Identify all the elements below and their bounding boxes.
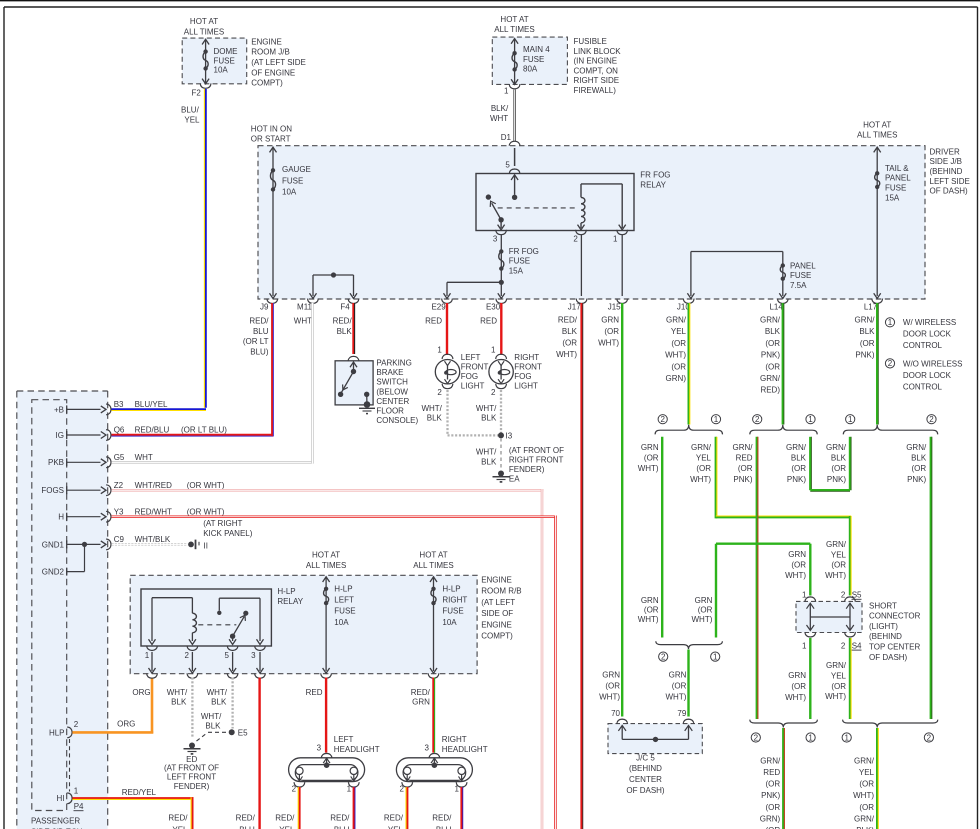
label WHT/RED OR WHT (Z2 wire) (135, 481, 225, 490)
svg-text:S4: S4 (852, 642, 862, 651)
svg-text:(OR: (OR (562, 339, 577, 348)
svg-text:BLK: BLK (481, 414, 497, 423)
wire WHT G5 to M11 (112, 303, 314, 464)
merge brace to J/C5 pin 79 (656, 641, 723, 649)
split brace J10 (655, 425, 722, 435)
svg-text:FUSE: FUSE (509, 257, 530, 266)
svg-text:FRONT: FRONT (514, 363, 542, 372)
svg-text:S5: S5 (852, 591, 862, 600)
J/C5 pin 70 (611, 709, 628, 739)
svg-text:GRN: GRN (788, 550, 806, 559)
option 2 marker (J10 left branch) (658, 415, 667, 424)
svg-text:FUSIBLE: FUSIBLE (574, 37, 607, 46)
svg-text:(AT FRONT OF: (AT FRONT OF (164, 763, 219, 772)
svg-text:F2: F2 (191, 89, 201, 98)
svg-text:BLK: BLK (562, 327, 578, 336)
svg-text:BLU): BLU) (250, 347, 269, 356)
svg-text:ALL TIMES: ALL TIMES (857, 131, 897, 140)
svg-text:OF DASH): OF DASH) (930, 187, 969, 196)
wire GRN S4 pin1 to merge (809, 638, 811, 719)
svg-text:ALL TIMES: ALL TIMES (184, 27, 224, 36)
svg-text:COMPT): COMPT) (251, 79, 283, 88)
H-LP relay pin 5 (224, 646, 238, 679)
svg-text:J9: J9 (260, 303, 269, 312)
svg-text:WHT: WHT (490, 114, 508, 123)
svg-text:J15: J15 (608, 303, 621, 312)
label HOT AT ALL TIMES (H-LP right fuse) (413, 551, 453, 571)
svg-text:IG: IG (56, 431, 64, 440)
S4 pin 2 (841, 632, 856, 650)
connector E30 (486, 299, 507, 312)
wire GRN/YEL merged to bottom (876, 728, 878, 829)
svg-text:RIGHT FRONT: RIGHT FRONT (509, 456, 564, 465)
svg-text:WHT): WHT) (853, 791, 874, 800)
wire RED/BLK F4 to parking brake switch (352, 303, 354, 354)
svg-text:CONNECTOR: CONNECTOR (869, 612, 921, 621)
svg-text:Q6: Q6 (114, 426, 125, 435)
svg-text:(OR: (OR (605, 682, 620, 691)
ground EA (493, 471, 521, 484)
option 1 marker (merge B right) (806, 733, 815, 742)
svg-text:1: 1 (808, 415, 813, 424)
wire GRN/BLK branch (L14-1) joined to L17-1 (810, 437, 851, 492)
wire RED/BLU left headlight pin1 to bottom (353, 787, 355, 829)
svg-text:2: 2 (755, 415, 760, 424)
label H-LP RELAY (277, 587, 303, 606)
svg-text:2: 2 (573, 234, 578, 243)
label S5 (852, 591, 863, 600)
svg-text:F4: F4 (340, 303, 350, 312)
svg-text:BLK: BLK (481, 457, 497, 466)
svg-text:PKB: PKB (48, 458, 64, 467)
svg-text:RELAY: RELAY (640, 181, 666, 190)
svg-text:WHT/: WHT/ (476, 448, 497, 457)
lamp LEFT HEADLIGHT (289, 744, 365, 794)
svg-text:1: 1 (714, 415, 719, 424)
svg-text:COMPT): COMPT) (481, 632, 513, 641)
svg-text:ORG: ORG (132, 688, 150, 697)
svg-text:(BELOW: (BELOW (376, 387, 408, 396)
merge brace to GRN/YEL wire (843, 720, 938, 728)
svg-text:ORG: ORG (117, 719, 135, 728)
svg-text:P4: P4 (74, 802, 84, 811)
svg-text:MAIN 4: MAIN 4 (523, 45, 550, 54)
connector J9 (260, 299, 278, 312)
wire relay pin2 to J17 inside J/B (580, 235, 582, 296)
svg-text:5: 5 (505, 161, 510, 170)
svg-text:(OR: (OR (912, 464, 927, 473)
svg-text:BLU: BLU (239, 825, 255, 829)
option 1 marker (L17 left branch) (846, 415, 855, 424)
svg-text:1: 1 (347, 784, 352, 793)
wire GRN/BLK L14 to split (782, 303, 784, 425)
ECU pin PKB (48, 453, 125, 468)
svg-text:GRN/: GRN/ (826, 540, 847, 549)
svg-text:RELAY: RELAY (277, 597, 303, 606)
svg-text:G5: G5 (114, 453, 125, 462)
svg-text:2: 2 (661, 652, 666, 661)
svg-text:YEL: YEL (279, 825, 295, 829)
label RED/BLU OR LT BLU (Q6 wire) (135, 426, 228, 435)
wire ORG HLP to H-LP relay pin1 (72, 678, 153, 734)
ECU pin FOGS (41, 481, 123, 496)
svg-text:CONTROL: CONTROL (903, 341, 943, 350)
svg-text:(OR LT: (OR LT (243, 337, 269, 346)
svg-text:BLK: BLK (337, 327, 353, 336)
junction block PASSENGER SIDE J/B ECU (outer dashed box) (17, 391, 108, 829)
svg-text:H-LP: H-LP (442, 584, 460, 593)
svg-text:WHT/: WHT/ (167, 688, 188, 697)
J/C5 pin 79 (677, 709, 694, 739)
svg-text:PANEL: PANEL (790, 261, 816, 270)
svg-text:GRN/: GRN/ (854, 814, 875, 823)
svg-text:BLK: BLK (171, 697, 187, 706)
svg-text:FUSE: FUSE (282, 176, 303, 185)
svg-text:GRN/: GRN/ (760, 316, 781, 325)
svg-text:WHT): WHT) (825, 571, 846, 580)
svg-text:(OR: (OR (831, 682, 846, 691)
wire WHT/BLK I3 to EA ground (500, 438, 502, 470)
svg-text:1: 1 (145, 651, 150, 660)
label HOT AT ALL TIMES (main 4 fuse) (494, 15, 534, 34)
svg-text:1: 1 (808, 733, 813, 742)
label RED/BLU (bottom) (330, 814, 350, 829)
svg-text:2: 2 (491, 388, 496, 397)
ECU pin GND2 (42, 544, 85, 576)
svg-text:(OR: (OR (698, 606, 713, 615)
svg-text:1: 1 (802, 642, 807, 651)
svg-text:LEFT SIDE: LEFT SIDE (930, 177, 970, 186)
svg-text:WHT): WHT) (665, 351, 686, 360)
svg-text:LEFT: LEFT (334, 596, 354, 605)
svg-text:GRN): GRN) (760, 814, 781, 823)
H-LP relay pin 3 (251, 646, 265, 679)
svg-text:BLK/: BLK/ (491, 104, 509, 113)
svg-text:1: 1 (504, 86, 509, 95)
wire RED/BLK J17 to bottom (580, 303, 582, 829)
svg-text:(OR: (OR (644, 606, 659, 615)
lamp RIGHT HEADLIGHT (396, 744, 472, 794)
wire RED/YEL right headlight pin2 to bottom (406, 787, 408, 829)
svg-text:2: 2 (292, 784, 297, 793)
svg-text:FIREWALL): FIREWALL) (574, 86, 617, 95)
svg-text:WHT/BLK: WHT/BLK (135, 535, 171, 544)
label LEFT HEADLIGHT (334, 735, 380, 754)
svg-text:ENGINE: ENGINE (251, 37, 282, 46)
svg-text:ALL TIMES: ALL TIMES (306, 561, 346, 570)
svg-text:HOT AT: HOT AT (419, 551, 447, 560)
label WHT/BLK (pin5 wire) (207, 688, 228, 707)
svg-text:(OR: (OR (766, 803, 781, 812)
svg-text:2: 2 (841, 591, 846, 600)
svg-text:10A: 10A (214, 66, 229, 75)
svg-text:I3: I3 (506, 431, 513, 440)
split brace L14 (750, 425, 817, 435)
wire BLU/YEL from F2 down to B3 (112, 89, 207, 411)
svg-text:(OR: (OR (859, 780, 874, 789)
svg-text:II: II (204, 541, 208, 550)
internal link M11-F4 in J/B (310, 272, 358, 298)
label WHT/BLK (I3-EA) (476, 448, 497, 467)
svg-text:(BEHIND: (BEHIND (629, 764, 662, 773)
svg-text:FRONT: FRONT (461, 363, 489, 372)
svg-text:CONSOLE): CONSOLE) (376, 416, 418, 425)
svg-text:BLK: BLK (911, 454, 927, 463)
svg-text:GRN: GRN (641, 596, 659, 605)
svg-text:RED: RED (763, 768, 780, 777)
wire GRN/RED branch (L14-2) to merge (756, 437, 758, 719)
H-LP relay pin 2 (184, 646, 197, 679)
wire WHT/BLK relay pin5 to E5 (231, 678, 233, 729)
svg-text:(OR: (OR (860, 339, 875, 348)
svg-text:RED: RED (306, 688, 323, 697)
svg-text:1: 1 (844, 733, 849, 742)
svg-text:2: 2 (888, 359, 893, 368)
svg-text:WHT/: WHT/ (421, 404, 442, 413)
svg-text:RED/: RED/ (275, 814, 295, 823)
S4 pin 1 (802, 632, 816, 650)
svg-text:YEL: YEL (388, 825, 404, 829)
wire RED E30 to right fog light (500, 303, 502, 355)
svg-text:(BEHIND: (BEHIND (930, 167, 963, 176)
svg-text:(AT FRONT OF: (AT FRONT OF (509, 446, 564, 455)
svg-text:2: 2 (437, 388, 442, 397)
relay switch contact (fixed) (486, 194, 491, 199)
svg-text:2: 2 (74, 720, 79, 729)
junction I3 (498, 431, 513, 440)
svg-text:M11: M11 (297, 303, 313, 312)
svg-text:WHT: WHT (294, 317, 312, 326)
svg-text:YEL: YEL (172, 825, 188, 829)
svg-text:PNK): PNK) (827, 475, 846, 484)
wire relay pin1 to J15 inside J/B (621, 235, 623, 296)
svg-text:1: 1 (74, 786, 79, 795)
svg-text:RED/: RED/ (432, 814, 452, 823)
fuse MAIN 4 FUSE 80A (511, 39, 550, 85)
label HOT AT ALL TIMES (tail fuse) (857, 120, 897, 139)
svg-text:GRN/: GRN/ (826, 443, 847, 452)
ECU connector P4 link (dashed) (69, 739, 71, 792)
svg-text:H-LP: H-LP (277, 587, 295, 596)
svg-text:BLU: BLU (253, 327, 269, 336)
svg-text:LIGHT: LIGHT (461, 382, 485, 391)
label WHT/BLK (right fog) (476, 404, 497, 423)
svg-text:FOGS: FOGS (41, 486, 64, 495)
svg-text:(OR: (OR (765, 339, 780, 348)
svg-text:WHT): WHT) (638, 615, 659, 624)
svg-text:1: 1 (491, 346, 496, 355)
svg-text:HEADLIGHT: HEADLIGHT (334, 745, 380, 754)
svg-text:WHT: WHT (135, 453, 153, 462)
svg-text:FR FOG: FR FOG (640, 170, 670, 179)
svg-text:D1: D1 (501, 133, 512, 142)
svg-text:SIDE J/B: SIDE J/B (930, 157, 962, 166)
svg-text:2: 2 (660, 415, 665, 424)
svg-text:RED/: RED/ (330, 814, 350, 823)
svg-text:RED/YEL: RED/YEL (122, 788, 157, 797)
svg-text:WHT): WHT) (638, 464, 659, 473)
svg-text:GRN: GRN (669, 671, 687, 680)
option 2 marker (L14 left branch) (753, 415, 762, 424)
svg-text:10A: 10A (282, 188, 297, 197)
svg-text:WHT/: WHT/ (476, 404, 497, 413)
fuse H-LP RIGHT FUSE 10A (428, 577, 467, 679)
wire RED/YEL HI to bottom (72, 797, 193, 829)
svg-text:GAUGE: GAUGE (282, 165, 311, 174)
svg-text:WHT/: WHT/ (201, 712, 222, 721)
svg-text:L14: L14 (769, 303, 783, 312)
svg-text:LIGHT: LIGHT (514, 382, 538, 391)
parking brake switch entry pin (348, 356, 359, 374)
svg-text:15A: 15A (509, 266, 524, 275)
ECU pin +B (54, 400, 124, 415)
short connector internal link (810, 616, 850, 618)
svg-text:Z2: Z2 (114, 481, 124, 490)
H-LP relay switch circuit (217, 598, 263, 644)
svg-text:FUSE: FUSE (334, 607, 355, 616)
wire GRN net to S5 pin1 (716, 544, 810, 638)
S5 pin 1 (802, 591, 816, 631)
relay pin 3 (493, 222, 507, 243)
svg-text:1: 1 (454, 784, 459, 793)
relay coil (581, 184, 622, 228)
svg-text:BLK: BLK (765, 327, 781, 336)
svg-text:BLU: BLU (334, 825, 350, 829)
svg-text:PASSENGER: PASSENGER (31, 816, 80, 825)
svg-text:FOG: FOG (461, 372, 478, 381)
svg-text:(OR: (OR (859, 803, 874, 812)
svg-text:DOOR LOCK: DOOR LOCK (903, 371, 952, 380)
svg-text:YEL: YEL (671, 327, 687, 336)
wire GRN/BLK branch (L17-2) to merge (930, 437, 932, 719)
connector SHORT CONNECTOR S5/S4 (dashed box) (796, 601, 862, 632)
svg-text:GRN/: GRN/ (854, 756, 875, 765)
fuse DOME FUSE 10A (202, 39, 237, 84)
J/C5 internal bus (622, 737, 688, 742)
label RED/BLU (bottom) (236, 814, 256, 829)
wire WHT/BLK right fog to I3 (500, 390, 502, 433)
junction block ENGINE ROOM J/B (dashed box) (182, 38, 247, 84)
option 2 marker (L17 right branch) (927, 415, 936, 424)
svg-text:BLK: BLK (831, 454, 847, 463)
svg-text:RED/: RED/ (236, 814, 256, 823)
relay switch arm (488, 200, 504, 223)
svg-text:RED/: RED/ (168, 814, 188, 823)
label HOT AT ALL TIMES (dome fuse) (184, 17, 224, 36)
svg-text:RED/WHT: RED/WHT (135, 507, 172, 516)
svg-text:1: 1 (888, 318, 893, 327)
svg-text:(OR: (OR (791, 464, 806, 473)
svg-text:1: 1 (437, 346, 442, 355)
svg-text:(OR LT BLU): (OR LT BLU) (181, 426, 227, 435)
svg-text:W/ WIRELESS: W/ WIRELESS (903, 318, 956, 327)
junction block DRIVER SIDE J/B (dashed box) (258, 146, 925, 299)
svg-text:2: 2 (399, 784, 404, 793)
svg-text:GRN/: GRN/ (855, 316, 876, 325)
svg-text:YEL: YEL (859, 768, 875, 777)
wire GRN/YEL branch (J10-1) to S5 pin2 (716, 437, 851, 596)
svg-text:(IN ENGINE: (IN ENGINE (574, 57, 618, 66)
svg-text:YEL: YEL (184, 116, 200, 125)
svg-text:(OR: (OR (672, 682, 687, 691)
wire RED/GRN H-LP right fuse to right headlight (432, 678, 434, 753)
svg-text:PNK): PNK) (733, 475, 752, 484)
svg-text:GRN/: GRN/ (666, 316, 687, 325)
svg-text:E29: E29 (431, 303, 446, 312)
svg-text:FENDER): FENDER) (174, 782, 210, 791)
svg-text:FR FOG: FR FOG (509, 247, 539, 256)
wire WHT/BLK relay pin2 to ED (191, 678, 193, 738)
svg-text:BLU/: BLU/ (181, 106, 200, 115)
svg-text:GRN): GRN) (666, 374, 687, 383)
svg-text:Y3: Y3 (114, 507, 124, 516)
svg-text:WHT): WHT) (785, 693, 806, 702)
connector J17 (568, 299, 587, 312)
svg-text:(OR: (OR (696, 464, 711, 473)
wire RED H-LP left fuse to left headlight (325, 678, 327, 753)
svg-text:3: 3 (493, 234, 498, 243)
svg-text:WHT): WHT) (598, 339, 619, 348)
wire RED/BLU Q6 to J9 (112, 303, 274, 436)
svg-text:(OR: (OR (738, 464, 753, 473)
svg-text:WHT): WHT) (825, 692, 846, 701)
svg-text:1: 1 (802, 591, 807, 600)
svg-text:CENTER: CENTER (629, 775, 662, 784)
ECU pin HLP (49, 720, 79, 738)
option 1 marker (merge A right) (711, 652, 720, 661)
svg-text:3: 3 (251, 651, 256, 660)
svg-text:BLU/YEL: BLU/YEL (135, 400, 168, 409)
svg-text:HI: HI (57, 794, 65, 803)
H-LP relay coil link (dashed) (198, 624, 236, 626)
svg-text:ROOM R/B: ROOM R/B (481, 587, 521, 596)
svg-text:HLP: HLP (49, 728, 65, 737)
svg-text:GRN: GRN (601, 316, 619, 325)
svg-text:FUSE: FUSE (885, 184, 906, 193)
svg-text:FUSE: FUSE (523, 55, 544, 64)
H-LP relay coil circuit (149, 598, 197, 645)
label HOT IN ON OR START (251, 125, 292, 144)
svg-text:10A: 10A (442, 618, 457, 627)
svg-text:LINK BLOCK: LINK BLOCK (574, 47, 622, 56)
svg-text:GRN/: GRN/ (691, 443, 712, 452)
svg-text:CENTER: CENTER (376, 397, 409, 406)
svg-text:BLK: BLK (859, 327, 875, 336)
svg-text:(OR: (OR (765, 362, 780, 371)
svg-text:RED/: RED/ (384, 814, 404, 823)
svg-text:TAIL &: TAIL & (885, 164, 909, 173)
relay FR FOG RELAY (box) (476, 174, 634, 231)
option 1 marker (L14 right branch) (806, 415, 815, 424)
merge brace to GRN/RED wire (750, 720, 818, 728)
svg-text:1: 1 (613, 234, 618, 243)
connector E29 (431, 299, 452, 312)
svg-text:HOT AT: HOT AT (863, 120, 891, 129)
connector J15 (608, 299, 628, 312)
H-LP relay pin 1 (145, 646, 158, 679)
label RED/WHT OR WHT (Y3 wire) (135, 507, 225, 516)
svg-text:2: 2 (184, 651, 189, 660)
svg-text:PNK): PNK) (855, 351, 874, 360)
wire GRN J15 to J/C5 pin 70 (621, 303, 623, 717)
connector F2 (191, 79, 211, 98)
svg-text:RIGHT: RIGHT (442, 735, 467, 744)
label BLU/YEL (F2 wire) (181, 106, 200, 125)
svg-text:GND1: GND1 (42, 540, 65, 549)
label RIGHT HEADLIGHT (442, 735, 488, 754)
relay coil link (dashed) (498, 207, 578, 209)
svg-text:3: 3 (424, 744, 429, 753)
